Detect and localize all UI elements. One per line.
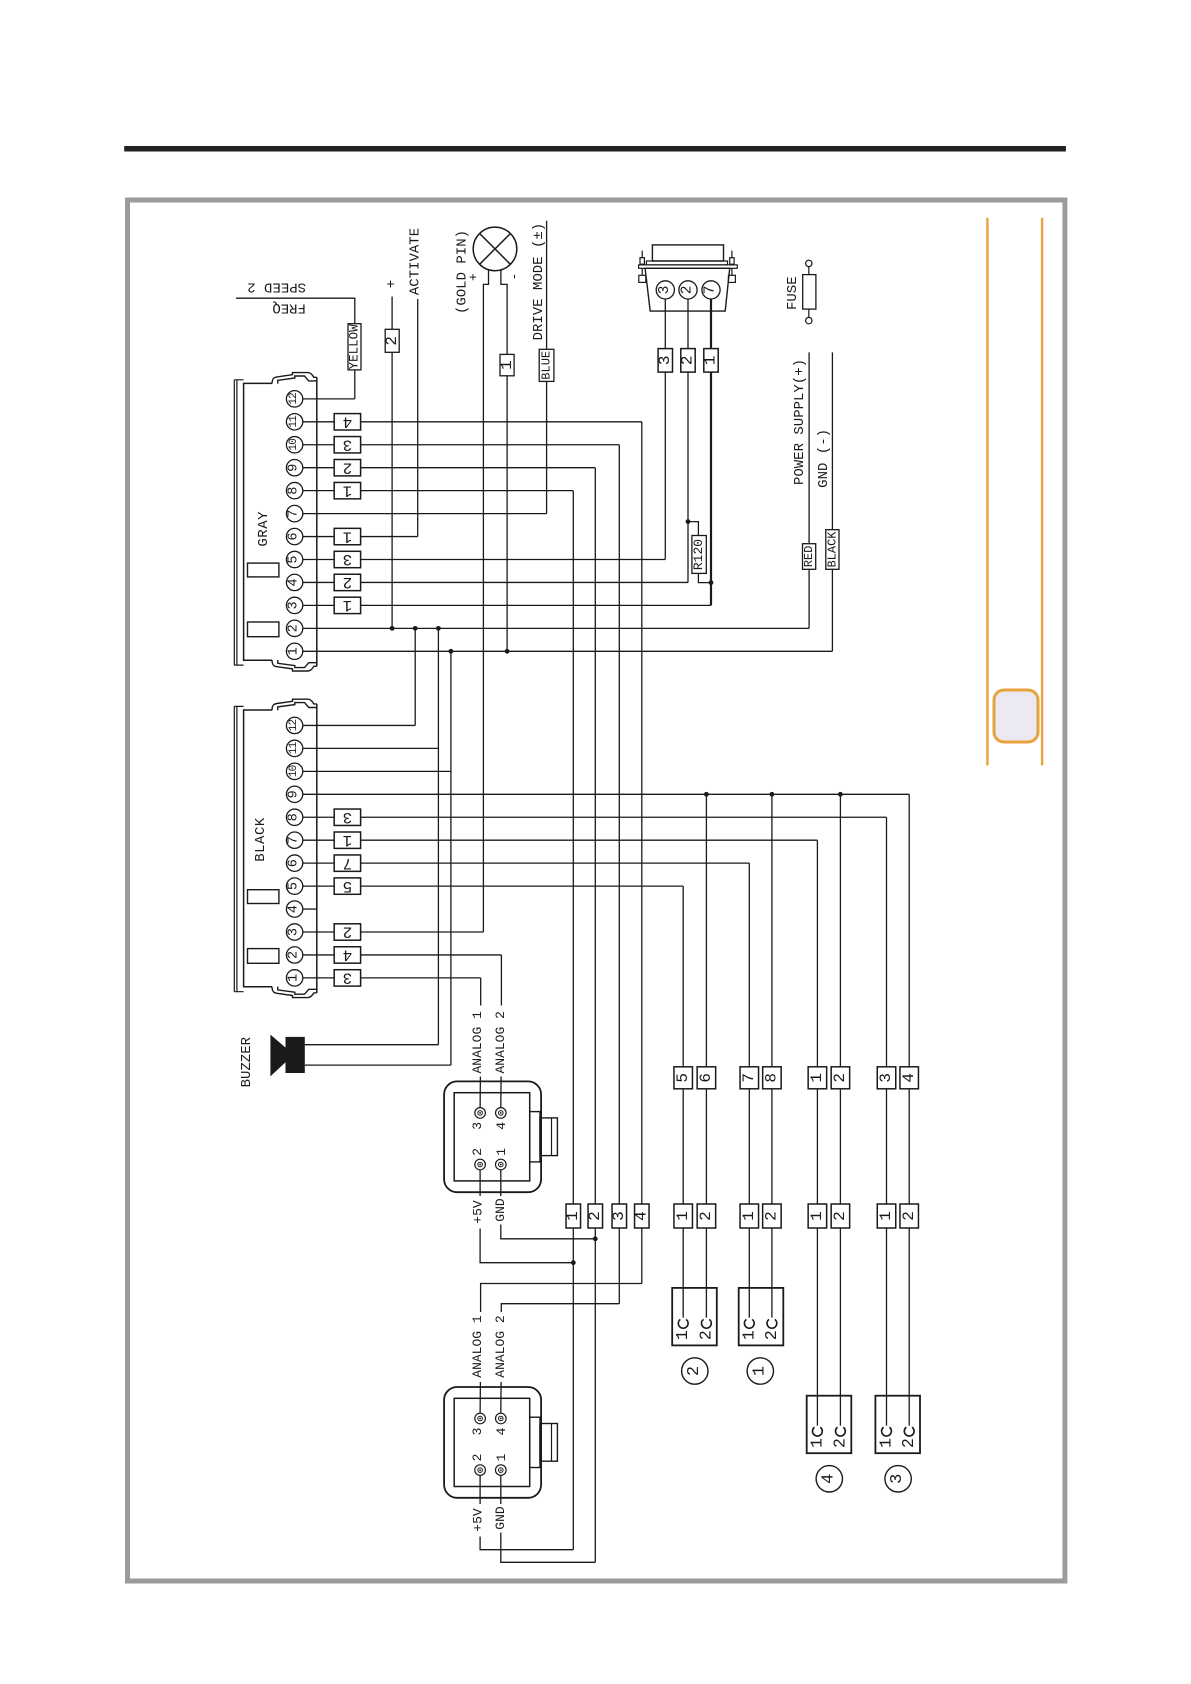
svg-text:7: 7 bbox=[703, 286, 719, 295]
svg-text:2: 2 bbox=[343, 573, 353, 591]
svg-text:8: 8 bbox=[287, 813, 302, 821]
wire number box 1 on lamp - wire bbox=[500, 354, 514, 375]
junction dot GND tap S1 bbox=[593, 1236, 598, 1241]
wire column x=683.2 from J2 row bbox=[682, 886, 684, 1318]
wire J1 pin 10 row bbox=[303, 444, 620, 446]
svg-text:8: 8 bbox=[287, 487, 302, 495]
wire number box 8 upper on column x=771.9 bbox=[763, 1067, 782, 1089]
svg-text:4: 4 bbox=[494, 1427, 509, 1435]
svg-text:3: 3 bbox=[470, 1428, 485, 1436]
wire J2 pin 2 row bbox=[303, 954, 502, 956]
wire marker BLACK bbox=[826, 530, 839, 570]
wire J1 pin 3 row bbox=[303, 604, 711, 606]
J2 pin 6 bbox=[286, 855, 302, 871]
wire number box 2 on J1 pin 9 row bbox=[334, 460, 360, 476]
wire J2 pin 1 row bbox=[303, 977, 481, 979]
wire number box 1 on X1 pin7 wire bbox=[704, 349, 718, 373]
svg-text:2: 2 bbox=[586, 1211, 604, 1221]
wire lamp - lead to J1 pin 1 row bbox=[501, 270, 507, 651]
connector J1 keying slot lower bbox=[248, 622, 279, 637]
svg-text:2: 2 bbox=[470, 1148, 485, 1156]
X1 pin 3 bbox=[656, 281, 674, 299]
J1 pin 10 bbox=[286, 437, 302, 453]
svg-text:ANALOG 2: ANALOG 2 bbox=[493, 1011, 508, 1073]
wire number box 3 on X1 pin3 wire bbox=[658, 349, 672, 373]
svg-text:1: 1 bbox=[343, 481, 353, 499]
J2 pin 3 bbox=[286, 924, 302, 940]
svg-text:7: 7 bbox=[287, 836, 302, 844]
wire number box 1 lower on column x=683.2 bbox=[674, 1204, 693, 1228]
J1 pin 1 bbox=[286, 643, 302, 659]
circled number 1 bbox=[747, 1358, 773, 1384]
svg-text:11: 11 bbox=[288, 415, 300, 428]
svg-text:2: 2 bbox=[287, 951, 302, 959]
junction dot R120 top on X1 pin2 wire bbox=[686, 519, 691, 524]
wire number box 3 on J2 pin 8 row bbox=[334, 809, 360, 825]
J1 pin 12 bbox=[286, 391, 302, 407]
wire X1 pin7 to J1 pin3 row bbox=[710, 299, 712, 605]
wire S2 pin2 to +5V column bbox=[480, 1475, 573, 1549]
connector X1 hood bbox=[652, 245, 723, 261]
wire number box 4 lower on analog1 column bbox=[635, 1204, 650, 1228]
svg-text:DRIVE MODE (±): DRIVE MODE (±) bbox=[531, 223, 547, 341]
svg-text:1: 1 bbox=[494, 1148, 509, 1156]
wire J1 pin1 row drop through J2 pin10 to buzzer - bbox=[450, 651, 452, 1065]
wire J2 pin4 to pin5 link bbox=[316, 886, 318, 909]
svg-text:9: 9 bbox=[287, 464, 302, 472]
svg-text:1: 1 bbox=[877, 1438, 896, 1448]
wire column x=840.4 from J2 row bbox=[839, 794, 841, 1425]
svg-text:1: 1 bbox=[287, 974, 302, 982]
svg-text:9: 9 bbox=[287, 790, 302, 798]
wire buzzer + lead bbox=[305, 1044, 439, 1046]
svg-text:2: 2 bbox=[763, 1211, 781, 1221]
wire J2 pin 12 row bbox=[303, 724, 415, 726]
junction dot J2 pin9 row col 772 bbox=[770, 792, 775, 797]
svg-text:4: 4 bbox=[343, 413, 353, 431]
sensor connector S2 mating stub bbox=[530, 1417, 540, 1467]
connector J1 top latch bbox=[272, 373, 317, 384]
svg-text:FUSE: FUSE bbox=[785, 276, 801, 310]
wire J1 pin11 column to S2 analog1 bbox=[480, 1284, 642, 1414]
wire X1 pin2 to J1 pin4 row bbox=[687, 299, 689, 582]
output connector P2 body bbox=[672, 1288, 717, 1346]
svg-text:5: 5 bbox=[674, 1073, 692, 1083]
wire J2 pin 8 row bbox=[303, 816, 887, 818]
wire J2 pin 4 row bbox=[303, 908, 317, 910]
svg-text:4: 4 bbox=[287, 905, 302, 913]
wire column x=817.4 from J2 row bbox=[816, 840, 818, 1425]
sensor S1 pin 1 bbox=[496, 1159, 507, 1170]
svg-text:1: 1 bbox=[674, 1211, 692, 1221]
wire number box 5 upper on column x=683.2 bbox=[674, 1067, 693, 1089]
svg-text:1: 1 bbox=[498, 360, 516, 370]
svg-text:6: 6 bbox=[287, 859, 302, 867]
wire marker RED bbox=[803, 544, 816, 570]
wire number box 2 on J2 pin 3 row bbox=[334, 924, 360, 940]
wire column x=886.5 from J2 row bbox=[886, 817, 888, 1425]
svg-text:2: 2 bbox=[680, 286, 696, 295]
diagram border frame bbox=[128, 200, 1065, 1581]
connector J1 keying slot upper bbox=[248, 563, 279, 577]
connector J2 bottom latch bbox=[272, 987, 317, 998]
svg-text:4: 4 bbox=[819, 1474, 838, 1484]
wire power supply + to J1 pin 2 row bbox=[808, 352, 810, 628]
svg-text:3: 3 bbox=[287, 928, 302, 936]
connector J2 keying slot upper bbox=[248, 890, 279, 904]
svg-text:+: + bbox=[466, 273, 481, 281]
wire number box 3 on J1 pin 5 row bbox=[334, 551, 360, 567]
svg-text:7: 7 bbox=[740, 1073, 758, 1083]
svg-text:2: 2 bbox=[900, 1211, 918, 1221]
wire column from J1 pin11 (analog1 sensor2) bbox=[641, 422, 643, 1284]
wire number box 1 lower on +5V column bbox=[566, 1204, 581, 1228]
wire FREQ SPEED 2 to J1 pin 12 via YELLOW bbox=[236, 298, 355, 399]
svg-text:4: 4 bbox=[494, 1122, 509, 1130]
wire column from J1 pin8 (+5V sensors) bbox=[572, 491, 574, 1550]
svg-text:BLACK: BLACK bbox=[253, 817, 269, 862]
wire X1 pin3 to J1 pin5 row bbox=[664, 299, 666, 560]
svg-text:FREQ: FREQ bbox=[272, 300, 306, 316]
fuse F1 terminal bottom bbox=[806, 317, 812, 323]
junction dot J1 pin1 row to J2 pin10 / buzzer drop bbox=[449, 649, 454, 654]
P2 contact hooks bbox=[678, 1319, 688, 1328]
X1 pin 2 bbox=[679, 281, 697, 299]
svg-text:1: 1 bbox=[739, 1330, 758, 1340]
svg-text:2: 2 bbox=[343, 458, 353, 476]
wire number box 1 on J1 pin 6 row bbox=[334, 528, 360, 544]
svg-text:+5V: +5V bbox=[470, 1508, 485, 1532]
output connector P4 body bbox=[807, 1396, 852, 1454]
svg-text:GND: GND bbox=[493, 1198, 508, 1222]
wire number box 3 upper on column x=886.5 bbox=[877, 1067, 896, 1089]
wire J2 pin1 row to S1 analog1 bbox=[479, 978, 482, 1108]
svg-text:1: 1 bbox=[807, 1438, 826, 1448]
sensor S2 pin 1 bbox=[496, 1465, 507, 1476]
svg-text:-: - bbox=[507, 273, 522, 281]
connector J2 BLACK 12-pin body bbox=[244, 710, 272, 987]
svg-text:10: 10 bbox=[288, 765, 300, 777]
J1 pin 4 bbox=[286, 574, 302, 590]
wire buzzer - lead bbox=[305, 1064, 451, 1066]
svg-text:ANALOG 1: ANALOG 1 bbox=[470, 1011, 485, 1074]
junction dot J2 pin9 row col 840 bbox=[838, 792, 843, 797]
J2 pin 1 bbox=[286, 970, 302, 986]
svg-text:3: 3 bbox=[343, 969, 353, 987]
junction dot J2 pin9 row col 706 bbox=[704, 792, 709, 797]
svg-text:R120: R120 bbox=[691, 539, 706, 570]
svg-text:5: 5 bbox=[343, 877, 353, 895]
wire number box 1 on J2 pin 7 row bbox=[334, 832, 360, 848]
junction dot + wire / J1 pin2 row bbox=[390, 626, 395, 631]
wire J2 pin 10 row bbox=[303, 770, 451, 772]
wire number box 7 upper on column x=749.3 bbox=[740, 1067, 759, 1089]
wire number box 6 upper on column x=706.4 bbox=[697, 1067, 716, 1089]
svg-text:8: 8 bbox=[763, 1073, 781, 1083]
top horizontal rule bbox=[124, 146, 1066, 152]
sensor S1 pin 3 bbox=[475, 1108, 486, 1119]
svg-text:BLUE: BLUE bbox=[539, 351, 553, 380]
wire J1 pin 5 row bbox=[303, 559, 666, 561]
wire number box 1 upper on column x=817.4 bbox=[808, 1067, 827, 1089]
svg-text:2: 2 bbox=[830, 1438, 849, 1448]
P3 contact hooks bbox=[882, 1427, 892, 1436]
junction dot +5V tap S1 bbox=[571, 1260, 576, 1265]
svg-text:BUZZER: BUZZER bbox=[239, 1036, 255, 1087]
wire J1 pin 8 row bbox=[303, 490, 574, 492]
connector X1 body bbox=[645, 268, 730, 311]
svg-text:1: 1 bbox=[808, 1073, 826, 1083]
J2 pin 10 bbox=[286, 763, 302, 779]
svg-text:3: 3 bbox=[343, 808, 353, 826]
connector X1 flange bbox=[639, 265, 738, 268]
svg-text:6: 6 bbox=[697, 1073, 715, 1083]
J2 pin 4 bbox=[286, 901, 302, 917]
svg-text:7: 7 bbox=[343, 854, 353, 872]
sensor S2 pin 3 bbox=[475, 1413, 486, 1424]
wire J2 pin 6 row bbox=[303, 862, 750, 864]
junction dot R120 bottom on X1 pin7 wire bbox=[709, 580, 714, 585]
wire number box 2 on J1 pin 4 row bbox=[334, 574, 360, 590]
svg-text:4: 4 bbox=[343, 946, 353, 964]
wire J1 pin 1 row bbox=[303, 650, 833, 652]
svg-text:ACTIVATE: ACTIVATE bbox=[408, 228, 424, 295]
wire column x=706.4 from J2 row bbox=[705, 794, 707, 1317]
wire J1 pin 4 row bbox=[303, 581, 688, 583]
wire marker YELLOW bbox=[348, 324, 361, 370]
svg-text:1: 1 bbox=[750, 1366, 769, 1376]
wire column x=909.2 from J2 row bbox=[908, 794, 910, 1425]
svg-text:1: 1 bbox=[673, 1330, 692, 1340]
P4 contact hooks bbox=[812, 1427, 822, 1436]
X1 pin 7 bbox=[702, 281, 720, 299]
junction dot lamp - / J1 pin1 row bbox=[505, 649, 510, 654]
orange note icon bbox=[994, 690, 1038, 742]
wire number box 2 lower on column x=909.2 bbox=[900, 1204, 919, 1228]
wire number box 2 lower on column x=706.4 bbox=[697, 1204, 716, 1228]
wire J1 pin 6 row bbox=[303, 536, 418, 538]
fuse F1 body bbox=[808, 267, 810, 318]
wire number box 4 upper on column x=909.2 bbox=[900, 1067, 919, 1089]
wire number box 2 lower on GND column bbox=[588, 1204, 603, 1228]
connector J2 mating face bars bbox=[234, 706, 243, 991]
svg-text:GND: GND bbox=[493, 1506, 508, 1530]
wire column x=749.3 from J2 row bbox=[748, 863, 750, 1317]
wire number box 3 lower on analog2 column bbox=[612, 1204, 627, 1228]
buzzer BZ1 bbox=[270, 1035, 285, 1077]
svg-text:5: 5 bbox=[287, 555, 302, 563]
svg-text:1: 1 bbox=[740, 1211, 758, 1221]
connector J1 bottom latch bbox=[272, 660, 317, 671]
svg-text:3: 3 bbox=[657, 286, 673, 295]
wire number box 7 on J2 pin 6 row bbox=[334, 855, 360, 871]
svg-text:4: 4 bbox=[900, 1073, 918, 1083]
sensor connector S1 mating stub bbox=[530, 1112, 540, 1162]
J1 pin 7 bbox=[286, 505, 302, 521]
svg-text:+: + bbox=[384, 280, 400, 288]
J1 pin 5 bbox=[286, 551, 302, 567]
svg-text:(GOLD PIN): (GOLD PIN) bbox=[455, 230, 471, 314]
svg-text:1: 1 bbox=[494, 1453, 509, 1461]
svg-text:2: 2 bbox=[696, 1330, 715, 1340]
wire S1 pin1 to GND column bbox=[501, 1170, 596, 1239]
svg-text:ANALOG 1: ANALOG 1 bbox=[470, 1315, 485, 1378]
svg-text:2: 2 bbox=[383, 336, 401, 346]
sensor S1 pin 4 bbox=[496, 1108, 507, 1119]
circled number 4 bbox=[816, 1466, 842, 1492]
svg-text:YELLOW: YELLOW bbox=[347, 324, 361, 370]
wire DRIVE MODE to J1 pin 7 bbox=[546, 221, 548, 514]
wire number box 5 on J2 pin 5 row bbox=[334, 878, 360, 894]
sensor S2 pin 2 bbox=[475, 1465, 486, 1476]
J1 pin 9 bbox=[286, 460, 302, 476]
connector X1 right screw bbox=[731, 251, 733, 276]
svg-text:+5V: +5V bbox=[470, 1200, 485, 1224]
svg-text:2: 2 bbox=[697, 1211, 715, 1221]
svg-text:3: 3 bbox=[888, 1474, 907, 1484]
J2 pin 7 bbox=[286, 832, 302, 848]
svg-text:BLACK: BLACK bbox=[825, 531, 839, 568]
svg-text:2: 2 bbox=[831, 1073, 849, 1083]
wire S1 pin2 to +5V column bbox=[480, 1170, 573, 1263]
circled number 3 bbox=[885, 1466, 911, 1492]
svg-text:2: 2 bbox=[831, 1211, 849, 1221]
svg-text:1: 1 bbox=[702, 356, 720, 366]
connector J1 GRAY 12-pin body bbox=[244, 383, 272, 660]
wire J1 pin10 column to S2 analog2 bbox=[501, 1304, 620, 1414]
wire number box 2 upper on column x=840.4 bbox=[831, 1067, 850, 1089]
sidebar orange line left bbox=[986, 218, 988, 766]
wire ground to J1 pin 1 row bbox=[831, 352, 833, 651]
svg-text:2: 2 bbox=[679, 356, 697, 366]
wire column from J1 pin10 (analog2 sensor2) bbox=[618, 445, 620, 1304]
J1 pin 3 bbox=[286, 597, 302, 613]
resistor R120 bbox=[692, 536, 706, 574]
svg-text:7: 7 bbox=[287, 510, 302, 518]
sensor S1 pin 2 bbox=[475, 1159, 486, 1170]
wire J2 pin2 row to S1 analog2 bbox=[500, 955, 503, 1108]
output connector P3 body bbox=[875, 1396, 920, 1454]
svg-text:GRAY: GRAY bbox=[256, 511, 272, 547]
svg-text:2: 2 bbox=[899, 1438, 918, 1448]
svg-text:2: 2 bbox=[470, 1454, 485, 1462]
connector J1 mating face bars bbox=[234, 380, 243, 665]
svg-text:1: 1 bbox=[287, 647, 302, 655]
connector X1 collar bbox=[646, 261, 727, 265]
svg-text:3: 3 bbox=[656, 356, 674, 366]
wire number box 3 on J2 pin 1 row bbox=[334, 970, 360, 986]
connector J2 keying slot lower bbox=[248, 949, 279, 964]
svg-text:1: 1 bbox=[877, 1211, 895, 1221]
svg-text:2: 2 bbox=[287, 624, 302, 632]
junction dot J1 pin2 row to J2 pin11 / buzzer drop bbox=[436, 626, 441, 631]
wire number box 4 on J1 pin 11 row bbox=[334, 414, 360, 430]
svg-text:RED: RED bbox=[802, 546, 816, 568]
wire S2 pin1 to GND column bbox=[501, 1475, 596, 1562]
lamp L1 (indicator) bbox=[473, 227, 517, 271]
wire column from J1 pin9 (GND sensors) bbox=[594, 468, 596, 1563]
wire J2 pin 7 row bbox=[303, 839, 818, 841]
svg-text:2: 2 bbox=[762, 1330, 781, 1340]
wire lamp + lead to J2 pin 3 row bbox=[483, 270, 488, 932]
wire J1 pin 7 row bbox=[303, 513, 547, 515]
J2 pin 9 bbox=[286, 786, 302, 802]
wire marker BLUE bbox=[539, 349, 554, 381]
wire number box 4 on J2 pin 2 row bbox=[334, 947, 360, 963]
svg-text:ANALOG 2: ANALOG 2 bbox=[493, 1315, 508, 1377]
wire number box 1 lower on column x=886.5 bbox=[877, 1204, 896, 1228]
svg-text:12: 12 bbox=[288, 719, 300, 731]
wire J1 pin 11 row bbox=[303, 421, 642, 423]
wire J1 pin2 row drop through J2 pin11 to buzzer + bbox=[437, 628, 439, 1044]
svg-text:1: 1 bbox=[343, 831, 353, 849]
wire J2 pin 11 row bbox=[303, 747, 439, 749]
sensor S2 pin 4 bbox=[496, 1413, 507, 1424]
J2 pin 11 bbox=[286, 740, 302, 756]
wire J1 pin 12 row bbox=[303, 398, 355, 400]
sensor connector S2 body bbox=[444, 1387, 541, 1498]
wire ACTIVATE to J1 pin 6 bbox=[417, 299, 419, 537]
J1 pin 8 bbox=[286, 482, 302, 498]
sensor connector S1 body bbox=[444, 1081, 541, 1192]
wire number box 2 lower on column x=771.9 bbox=[763, 1204, 782, 1228]
svg-text:10: 10 bbox=[288, 439, 300, 451]
J1 pin 6 bbox=[286, 528, 302, 544]
svg-text:1: 1 bbox=[808, 1211, 826, 1221]
svg-text:1: 1 bbox=[343, 527, 353, 545]
J1 pin 2 bbox=[286, 620, 302, 636]
svg-text:12: 12 bbox=[288, 393, 300, 405]
wire number box 2 on + wire bbox=[385, 329, 399, 352]
svg-text:1: 1 bbox=[343, 596, 353, 614]
J2 pin 8 bbox=[286, 809, 302, 825]
J2 pin 5 bbox=[286, 878, 302, 894]
svg-text:2: 2 bbox=[343, 923, 353, 941]
wire number box 1 lower on column x=749.3 bbox=[740, 1204, 759, 1228]
wire J2 pin 3 row bbox=[303, 931, 484, 933]
wire R120 bottom jog bbox=[698, 573, 711, 582]
svg-text:POWER SUPPLY(+): POWER SUPPLY(+) bbox=[792, 359, 808, 485]
svg-text:3: 3 bbox=[343, 550, 353, 568]
wire J1 pin 2 row bbox=[303, 627, 809, 629]
svg-text:2: 2 bbox=[685, 1366, 704, 1376]
wire number box 1 lower on column x=817.4 bbox=[808, 1204, 827, 1228]
wire number box 2 on X1 pin2 wire bbox=[681, 349, 695, 373]
wire number box 2 lower on column x=840.4 bbox=[831, 1204, 850, 1228]
circled number 2 bbox=[682, 1358, 708, 1384]
svg-text:3: 3 bbox=[287, 601, 302, 609]
J1 pin 11 bbox=[286, 414, 302, 430]
connector X1 left screw bbox=[641, 251, 643, 276]
P1 contact hooks bbox=[744, 1319, 754, 1328]
svg-text:SPEED 2: SPEED 2 bbox=[247, 278, 306, 294]
wire number box 1 on J1 pin 8 row bbox=[334, 482, 360, 498]
wire number box 1 on J1 pin 3 row bbox=[334, 597, 360, 613]
svg-text:4: 4 bbox=[287, 578, 302, 586]
J2 pin 2 bbox=[286, 947, 302, 963]
svg-text:1: 1 bbox=[564, 1211, 582, 1221]
wire R120 top jog bbox=[688, 522, 698, 536]
wire J1 pin 9 row bbox=[303, 467, 596, 469]
svg-text:4: 4 bbox=[633, 1211, 651, 1221]
svg-text:3: 3 bbox=[470, 1122, 485, 1130]
output connector P1 body bbox=[739, 1288, 784, 1346]
svg-text:11: 11 bbox=[288, 741, 300, 754]
svg-text:5: 5 bbox=[287, 882, 302, 890]
J2 pin 12 bbox=[286, 717, 302, 733]
svg-text:3: 3 bbox=[343, 435, 353, 453]
wire J2 pin 9 row bbox=[303, 793, 909, 795]
